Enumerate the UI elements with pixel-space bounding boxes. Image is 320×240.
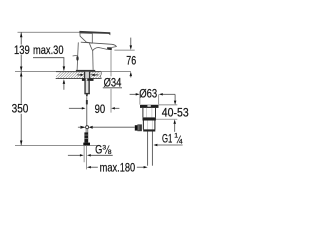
faucet pull-rod knob <box>73 55 78 57</box>
dimension 139 vertical line <box>20 32 22 71</box>
pop-up rod coupler <box>86 100 88 104</box>
spout outlet extension line vertical <box>110 50 112 76</box>
faucet lever tip droop <box>108 34 110 36</box>
faucet spout top surface <box>81 42 117 47</box>
G3/8 arrows <box>68 154 80 156</box>
supply stud threaded <box>84 132 88 142</box>
waste coupling nut <box>143 117 156 120</box>
svg-text:350: 350 <box>12 102 29 116</box>
waste flange <box>140 104 158 106</box>
faucet lever bar <box>79 31 110 34</box>
shank rod tip <box>86 94 89 97</box>
dimension 40-53 upper arrow <box>174 95 176 102</box>
aerator level reference line <box>114 49 134 51</box>
svg-text:G: G <box>95 143 102 157</box>
shank tube below nut <box>86 81 89 94</box>
dimension 76 upper arrow <box>130 38 132 46</box>
dimension 90 left arrow <box>69 107 83 109</box>
svg-text:139: 139 <box>14 43 30 57</box>
Ø63 extension lines <box>139 95 141 105</box>
dimension max.30 lower arrow <box>63 79 66 84</box>
svg-text:90: 90 <box>95 102 106 116</box>
waste lower band <box>143 129 155 131</box>
dimension max.180 left arrow <box>87 166 91 168</box>
svg-text:4: 4 <box>179 138 183 145</box>
svg-text:40-53: 40-53 <box>162 105 189 119</box>
dimension 40-53 lower arrow <box>173 119 176 124</box>
svg-text:1: 1 <box>174 133 178 140</box>
svg-text:max.180: max.180 <box>100 160 136 174</box>
svg-text:8: 8 <box>108 149 112 156</box>
faucet body right edge <box>92 51 94 70</box>
dimension 90 right arrow <box>111 107 115 109</box>
wire counter datum line (deck top level, left extension) <box>15 71 131 73</box>
G1 1/4 leader arrow <box>153 144 157 146</box>
dimension max.30 upper arrow <box>63 58 65 67</box>
dimension 76 lower arrow <box>130 72 133 77</box>
linkage pivot ball <box>86 126 89 129</box>
wire top reference line (lever top level) <box>18 31 80 33</box>
dimension 350 vertical line <box>20 72 22 146</box>
40-53 extension lines <box>159 104 178 106</box>
waste tailpipe <box>147 132 149 166</box>
mounting nut under deck <box>82 78 94 81</box>
horizontal pop-up linkage rod <box>78 126 80 128</box>
faucet handle face <box>80 33 92 43</box>
counter deck break edge (wavy) <box>101 71 102 79</box>
faucet aerator <box>107 47 112 50</box>
deck hole arrow right <box>94 74 98 76</box>
hose lines below pivot <box>85 129 87 133</box>
svg-text:3: 3 <box>102 145 106 152</box>
svg-text:Ø34: Ø34 <box>104 75 122 89</box>
faucet body shoulder line <box>89 43 92 50</box>
deck hole arrow left <box>77 74 81 76</box>
stud extension lines below datum <box>83 146 85 162</box>
dimension Ø63 line with arrows <box>130 93 136 95</box>
waste lower body <box>142 121 144 130</box>
counter deck top edge <box>56 71 101 73</box>
faucet base plinth <box>76 70 95 72</box>
faucet spout underside <box>93 48 108 51</box>
pop-up rod <box>86 97 88 125</box>
faucet body left edge <box>77 42 78 70</box>
counter deck hatching <box>54 71 108 79</box>
supply stud end nut <box>83 143 90 146</box>
waste upper body <box>142 108 144 118</box>
wire bottom datum line (hose end level) <box>15 145 97 147</box>
svg-text:max.30: max.30 <box>33 43 64 57</box>
svg-text:Ø63: Ø63 <box>139 86 157 100</box>
faucet shank through deck <box>85 72 89 79</box>
counter deck bottom edge <box>56 78 101 80</box>
svg-text:G1: G1 <box>162 132 173 146</box>
linkage pivot arrows <box>80 126 85 129</box>
waste rod inlet fitting <box>135 125 138 130</box>
dimension max.180 right arrow <box>137 166 144 168</box>
svg-text:76: 76 <box>126 54 136 67</box>
